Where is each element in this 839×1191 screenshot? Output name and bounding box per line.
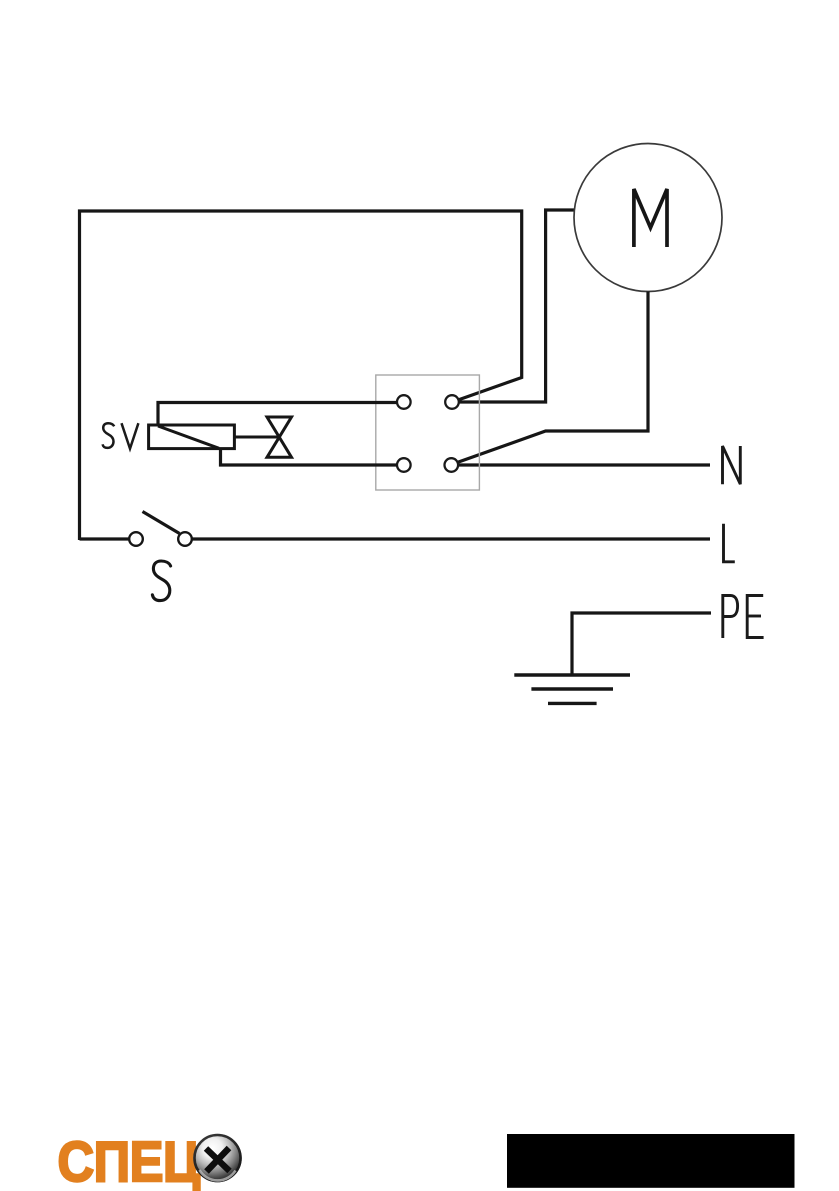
label M (motor) [634,189,667,247]
terminal pin bottom-right [445,458,459,472]
wire L line from switch to label [192,537,710,540]
ground symbol [514,675,630,703]
wire N line from terminal to label [458,463,710,466]
label SV [103,423,139,449]
wire motor bottom to terminal bottom-right [458,292,648,463]
wire top loop from left corner to terminal top-right [80,211,522,540]
label N [723,446,741,484]
label S (switch) [152,561,170,601]
wire PE to ground [572,613,711,675]
wire SV coil top to terminal top-left [158,403,397,426]
switch S contact circle left [129,532,143,546]
terminal pin top-right [445,395,459,409]
wire bottom-left horizontal to switch [80,537,130,540]
label PE [723,596,764,639]
svg-text:СПЕЦ: СПЕЦ [58,1130,200,1191]
valve symbol (hourglass) [267,417,292,457]
switch S blade [143,512,180,534]
black footer block [507,1134,795,1188]
solenoid coil SV rectangle [149,425,235,449]
label L [724,524,735,562]
wire SV to valve [234,436,279,439]
switch S contact circle right [178,532,192,546]
logo text СПЕЦ [58,1130,200,1191]
wire SV coil bottom to terminal bottom-left [221,449,398,465]
solenoid SV diagonal [158,426,219,448]
logo screw head [193,1134,242,1183]
terminal pin top-left [397,395,411,409]
terminal pin bottom-left [397,458,411,472]
terminal block rectangle [376,375,480,490]
wire from terminal top-right up to motor left [459,210,575,402]
motor M circle [574,144,722,292]
